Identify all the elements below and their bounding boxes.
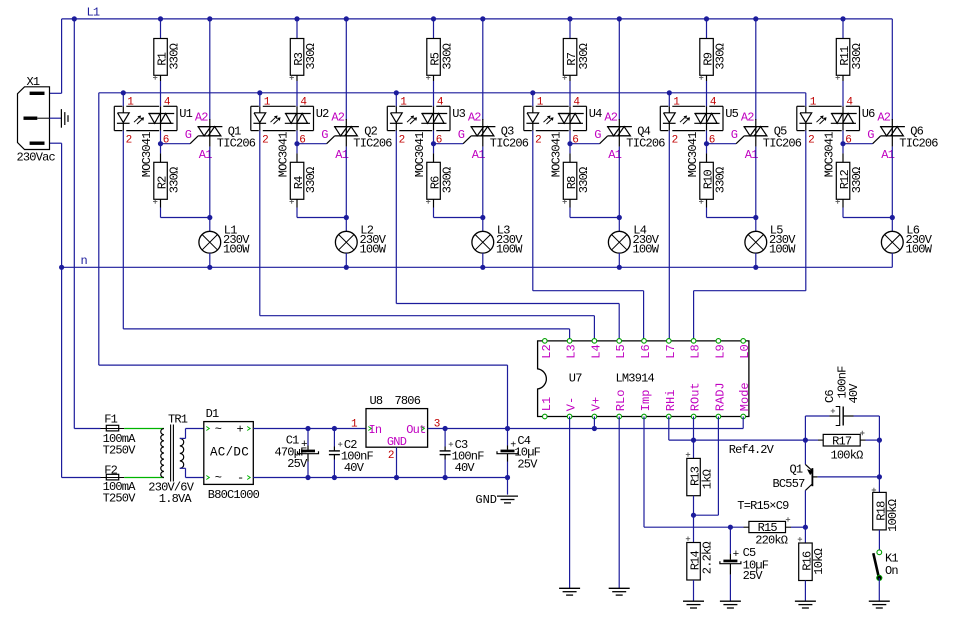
wire TR1 secondary to D1 <box>180 437 186 439</box>
wire X1 pin1 to L1 rail <box>61 19 63 93</box>
wire +6V rail feeding opto LEDs <box>99 92 806 94</box>
svg-text:6: 6 <box>163 135 169 147</box>
wire net n rail <box>62 266 893 268</box>
wire gate of Q3 <box>434 143 464 145</box>
resistor R1 330 ohm <box>154 39 168 76</box>
IC U7 LM3914 <box>538 341 749 417</box>
ground at RLo <box>609 587 630 589</box>
fuse F2 100mA T250V <box>101 477 125 479</box>
svg-text:L3: L3 <box>565 344 579 358</box>
svg-text:Imp: Imp <box>639 390 653 412</box>
svg-text:U3: U3 <box>452 107 465 121</box>
svg-text:6: 6 <box>299 135 305 147</box>
wire gate of Q5 <box>707 143 737 145</box>
svg-text:R15: R15 <box>758 521 778 535</box>
junction C1 plus <box>305 426 310 431</box>
junction L1 rail / Q4 A2 <box>617 16 622 21</box>
resistor R12 330 ohm <box>836 162 850 199</box>
svg-text:MOC3041: MOC3041 <box>549 132 563 177</box>
junction U4 pin6 / R8 / gate <box>567 141 572 146</box>
svg-text:330Ω: 330Ω <box>167 167 181 193</box>
wire RADJ jog <box>694 514 719 516</box>
wire U5 pin 6 to gate node <box>706 131 708 144</box>
svg-text:1: 1 <box>400 97 407 109</box>
junction R15 / Q1 collector / R16 <box>803 525 808 530</box>
triac Q6 TIC206 <box>891 119 893 147</box>
wire Q6 A1 to lamp L6 <box>891 147 893 232</box>
svg-text:RADJ: RADJ <box>713 382 727 411</box>
resistor R7 330 ohm <box>563 39 577 76</box>
power ground symbol <box>507 478 509 495</box>
wire L1 rail to F1 <box>73 19 75 429</box>
svg-text:X1: X1 <box>27 75 40 89</box>
resistor R4 330 ohm <box>290 162 304 199</box>
resistor R5 330 ohm <box>427 39 441 76</box>
wire Q1 A2 from L1 rail <box>209 19 211 120</box>
junction U1 pin6 / R2 / gate <box>158 141 163 146</box>
svg-text:A2: A2 <box>877 111 890 125</box>
wire lamp L4 to n rail <box>618 253 620 267</box>
svg-text:F1: F1 <box>104 413 117 427</box>
opto-triac U4 MOC3041 <box>524 105 532 107</box>
lamp L2 230V 100W <box>335 231 357 253</box>
junction Q1 A1 / R2 / lamp L1 <box>207 215 212 220</box>
svg-text:7806: 7806 <box>395 394 421 408</box>
svg-text:-: - <box>237 471 243 485</box>
wire R7 to U4 pin 4 <box>569 81 571 106</box>
junction GND rail / U8 <box>394 475 399 480</box>
svg-text:100W: 100W <box>223 243 250 257</box>
svg-text:100W: 100W <box>906 243 933 257</box>
wire R3 to U2 pin 4 <box>296 81 298 106</box>
opto-triac U6 MOC3041 <box>797 105 805 107</box>
svg-text:4: 4 <box>164 97 171 109</box>
svg-text:Mode: Mode <box>738 382 752 411</box>
svg-text:A2: A2 <box>331 111 344 125</box>
svg-text:4: 4 <box>846 97 853 109</box>
svg-text:U6: U6 <box>862 107 875 121</box>
resistor R9 330 ohm <box>700 39 714 76</box>
wire Q6 A2 from L1 rail <box>891 19 893 120</box>
junction R13 / R14 / RADJ <box>691 513 696 518</box>
connector X1 230Vac <box>18 87 50 150</box>
svg-text:1: 1 <box>810 97 817 109</box>
junction n rail / lamp L5 <box>753 265 758 270</box>
svg-text:L1: L1 <box>87 6 100 20</box>
wire U3 pin 2 down <box>395 131 397 304</box>
wire R17 node down to base row <box>878 440 880 477</box>
wire gate of Q4 <box>570 143 600 145</box>
wire Q2 A2 from L1 rail <box>345 19 347 120</box>
wire Q1 A1 to lamp L1 <box>209 147 211 232</box>
junction L1 rail / Q1 A2 <box>207 16 212 21</box>
wire X1 pin3 to F2 <box>50 142 62 144</box>
svg-text:U4: U4 <box>589 107 602 121</box>
lamp L4 230V 100W <box>608 231 630 253</box>
wire U8 output 6V rail <box>428 428 744 430</box>
ground at V- <box>559 587 580 589</box>
wire R10 to lamp node <box>706 208 708 218</box>
wire R3 top lead <box>296 19 298 39</box>
svg-text:TIC206: TIC206 <box>490 137 529 151</box>
wire R11 top lead <box>842 19 844 39</box>
svg-text:L9: L9 <box>713 344 727 358</box>
lamp L6 230V 100W <box>881 231 903 253</box>
capacitor C1 470uF 25V <box>307 429 309 446</box>
wire R15 right to collector node <box>786 526 792 528</box>
resistor R17 100k <box>805 439 818 441</box>
wire X1 earth pin <box>50 117 62 119</box>
svg-text:330Ω: 330Ω <box>577 43 591 69</box>
wire +6V to U5 pin 1 <box>668 93 670 107</box>
svg-text:330Ω: 330Ω <box>440 43 454 69</box>
voltage regulator U8 7806 <box>366 409 428 448</box>
svg-text:GND: GND <box>475 493 497 507</box>
wire U4 pin 6 to gate node <box>569 131 571 144</box>
svg-text:+: + <box>733 549 740 561</box>
svg-text:L6: L6 <box>639 344 653 358</box>
junction C1 minus <box>305 475 310 480</box>
wire U6 pin2 to LM3914 L8 <box>694 290 806 292</box>
junction C2 top <box>332 426 337 431</box>
svg-text:40V: 40V <box>344 461 365 475</box>
svg-text:F2: F2 <box>104 464 117 478</box>
wire lamp L3 to n rail <box>482 253 484 267</box>
wire gate of Q1 <box>161 143 191 145</box>
wire net L1 top rail <box>62 18 893 20</box>
wire lamp L5 to n rail <box>755 253 757 267</box>
junction n rail / lamp L1 <box>207 265 212 270</box>
wire Mode to 6V rail <box>742 417 744 429</box>
wire R13 bottom to RADJ node <box>693 496 695 516</box>
ground at R14 <box>683 600 704 602</box>
svg-text:MOC3041: MOC3041 <box>276 132 290 177</box>
junction L1 rail / Q3 A2 <box>480 16 485 21</box>
svg-text:A2: A2 <box>604 111 617 125</box>
wire +6V to U4 pin 1 <box>532 93 534 107</box>
svg-text:L4: L4 <box>589 344 603 358</box>
wire U4 pin 2 down <box>532 131 534 291</box>
svg-text:R17: R17 <box>832 435 852 449</box>
fuse F1 100mA T250V <box>101 428 125 430</box>
svg-text:TIC206: TIC206 <box>217 137 256 151</box>
wire Q5 A1 to lamp L5 <box>755 147 757 232</box>
junction L1 rail / R5 <box>431 16 436 21</box>
svg-text:10kΩ: 10kΩ <box>812 548 826 574</box>
junction +6V rail / U5 pin 1 <box>667 90 672 95</box>
opto-triac U5 MOC3041 <box>660 105 668 107</box>
wire K1 to ground <box>878 578 880 601</box>
opto-triac U3 MOC3041 <box>387 105 395 107</box>
svg-text:330Ω: 330Ω <box>577 167 591 193</box>
svg-text:n: n <box>81 254 88 268</box>
lamp L5 230V 100W <box>745 231 767 253</box>
svg-text:330Ω: 330Ω <box>850 43 864 69</box>
svg-text:A2: A2 <box>195 111 208 125</box>
transistor Q1 BC557 <box>804 440 806 464</box>
resistor R6 330 ohm <box>427 162 441 199</box>
svg-text:T250V: T250V <box>103 492 137 506</box>
svg-text:G: G <box>321 128 328 142</box>
wire lamp L6 to n rail <box>891 253 893 267</box>
svg-text:TIC206: TIC206 <box>626 137 665 151</box>
wire R10 top lead <box>706 144 708 154</box>
triac Q3 TIC206 <box>482 119 484 147</box>
wire U2 pin 2 down <box>259 131 261 316</box>
wire V+ stub <box>593 417 595 429</box>
wire R11 to U6 pin 4 <box>842 81 844 106</box>
wire Q3 A2 from L1 rail <box>482 19 484 120</box>
resistor R11 330 ohm <box>836 39 850 76</box>
wire U6 pin 2 down <box>805 131 807 291</box>
wire U2 pin 6 to gate node <box>296 131 298 144</box>
svg-text:1.8VA: 1.8VA <box>159 492 193 506</box>
svg-text:330Ω: 330Ω <box>850 167 864 193</box>
svg-text:1: 1 <box>264 97 271 109</box>
svg-text:RLo: RLo <box>614 390 628 412</box>
svg-text:4: 4 <box>437 97 444 109</box>
resistor R16 10k <box>799 543 813 581</box>
junction L1 rail / F1 feed <box>72 16 77 21</box>
svg-text:Ref4.2V: Ref4.2V <box>729 443 775 457</box>
junction C4 bottom / GND stub <box>505 475 510 480</box>
wire U5 pin 2 down <box>668 131 670 341</box>
wire RHi to Ref4.2V rail <box>668 417 670 441</box>
wire R4 top lead <box>296 144 298 154</box>
capacitor C6 100nF 40V <box>804 416 806 440</box>
ground at C5 <box>720 600 741 602</box>
svg-text:L5: L5 <box>614 344 628 358</box>
junction R17 right / C6 / R18 branch <box>877 438 882 443</box>
svg-text:A2: A2 <box>468 111 481 125</box>
svg-text:BC557: BC557 <box>772 477 805 491</box>
wire R1 to U1 pin 4 <box>160 81 162 106</box>
wire R9 to U5 pin 4 <box>706 81 708 106</box>
svg-text:~: ~ <box>215 471 222 485</box>
wire Imp to R15 row <box>643 417 645 528</box>
wire U1 pin2 to LM3914 L3 <box>123 328 569 330</box>
svg-text:2: 2 <box>126 135 132 147</box>
opto-triac U2 MOC3041 <box>251 105 259 107</box>
svg-text:6: 6 <box>709 135 715 147</box>
svg-text:2.2kΩ: 2.2kΩ <box>700 542 714 575</box>
resistor R14 2.2k <box>687 543 701 581</box>
wire Q5 A2 from L1 rail <box>755 19 757 120</box>
wire gate of Q2 <box>297 143 327 145</box>
capacitor C2 100nF 40V <box>333 429 335 447</box>
ground at R16 <box>795 600 816 602</box>
svg-text:25V: 25V <box>743 569 764 583</box>
wire U1 pin 6 to gate node <box>160 131 162 144</box>
junction C5 / Imp row <box>728 525 733 530</box>
svg-text:V-: V- <box>565 397 579 411</box>
junction Ref rail / Q1 emitter / C6 / R17 <box>803 438 808 443</box>
triac Q1 TIC206 <box>209 119 211 147</box>
svg-text:6: 6 <box>572 135 578 147</box>
resistor R18 100k <box>873 492 887 530</box>
wire +6V to U1 pin 1 <box>122 93 124 107</box>
svg-text:U7: U7 <box>569 372 582 386</box>
wire Q1 base to R18 node <box>818 476 880 478</box>
svg-text:25V: 25V <box>287 457 308 471</box>
svg-text:1: 1 <box>673 97 680 109</box>
svg-text:6: 6 <box>845 135 851 147</box>
wire R5 top lead <box>433 19 435 39</box>
junction ROut / Ref rail <box>691 438 696 443</box>
svg-text:L8: L8 <box>689 344 703 358</box>
switch K1 On <box>877 550 882 555</box>
svg-text:2: 2 <box>388 450 394 462</box>
triac Q5 TIC206 <box>755 119 757 147</box>
wire R5 to U3 pin 4 <box>433 81 435 106</box>
junction +6V rail / U2 pin 1 <box>257 90 262 95</box>
resistor R8 330 ohm <box>563 162 577 199</box>
svg-text:ROut: ROut <box>689 382 703 411</box>
wire lamp L2 to n rail <box>345 253 347 267</box>
svg-text:220kΩ: 220kΩ <box>755 534 788 548</box>
svg-text:TIC206: TIC206 <box>763 137 802 151</box>
svg-text:100W: 100W <box>633 243 660 257</box>
transformer TR1 230V/6V 1.8VA <box>161 429 164 478</box>
svg-text:RHi: RHi <box>664 390 678 412</box>
wire U6 pin 6 to gate node <box>842 131 844 144</box>
svg-text:6: 6 <box>436 135 442 147</box>
junction U6 pin6 / R12 / gate <box>840 141 845 146</box>
svg-text:1: 1 <box>537 97 544 109</box>
wire D1 + output to regulator <box>253 428 366 430</box>
wire R18 top <box>878 477 880 493</box>
junction L1 rail / R11 <box>840 16 845 21</box>
wire U1 pin 2 down <box>122 131 124 329</box>
wire F1 to TR1 (green) <box>124 428 164 430</box>
wire Q3 A1 to lamp L3 <box>482 147 484 232</box>
svg-text:G: G <box>731 128 738 142</box>
wire U2 pin2 to LM3914 L4 <box>260 315 595 317</box>
svg-text:L0: L0 <box>738 344 752 358</box>
U7 pin connection rings <box>543 339 548 344</box>
wire R13 node down to R14 <box>693 515 695 542</box>
wire F2 to TR1 (green) <box>124 477 164 479</box>
svg-text:T250V: T250V <box>103 444 137 458</box>
junction L1 rail / R1 <box>158 16 163 21</box>
wire V- to ground <box>569 417 571 589</box>
svg-text:V+: V+ <box>589 397 603 411</box>
svg-text:100W: 100W <box>769 243 796 257</box>
svg-text:U1: U1 <box>179 107 192 121</box>
wire R12 top lead <box>842 144 844 154</box>
wire Q2 A1 to lamp L2 <box>345 147 347 232</box>
wire Q4 A1 to lamp L4 <box>618 147 620 232</box>
svg-text:330Ω: 330Ω <box>713 43 727 69</box>
resistor R10 330 ohm <box>700 162 714 199</box>
bridge rectifier D1 B80C1000 <box>204 422 254 485</box>
junction Q4 A1 / R8 / lamp L4 <box>617 215 622 220</box>
junction +6V rail / U3 pin 1 <box>394 90 399 95</box>
lamp L3 230V 100W <box>472 231 494 253</box>
svg-text:100kΩ: 100kΩ <box>886 499 900 532</box>
svg-text:G: G <box>185 128 192 142</box>
svg-text:T=R15×C9: T=R15×C9 <box>737 499 789 513</box>
svg-text:L2: L2 <box>540 344 554 358</box>
wire R1 top lead <box>160 19 162 39</box>
capacitor C4 10uF 25V <box>507 429 509 446</box>
svg-text:40V: 40V <box>455 461 476 475</box>
junction U2 pin6 / R4 / gate <box>294 141 299 146</box>
junction L1 rail / Q2 A2 <box>344 16 349 21</box>
svg-text:2: 2 <box>672 135 678 147</box>
wire RLo to ground <box>618 417 620 589</box>
junction Q5 A1 / R10 / lamp L5 <box>753 215 758 220</box>
wire R9 top lead <box>706 19 708 39</box>
junction V+ pin / 6V rail <box>592 426 597 431</box>
wire U4 pin2 to LM3914 L6 <box>533 290 644 292</box>
wire R8 to lamp node <box>569 208 571 218</box>
svg-text:Q1: Q1 <box>789 463 802 477</box>
junction Q2 A1 / R4 / lamp L2 <box>344 215 349 220</box>
wire R7 top lead <box>569 19 571 39</box>
svg-text:1: 1 <box>127 97 134 109</box>
opto-triac U1 MOC3041 <box>114 105 122 107</box>
junction C2 bottom <box>332 475 337 480</box>
wire R6 to lamp node <box>433 208 435 218</box>
wire Q4 A2 from L1 rail <box>618 19 620 120</box>
svg-text:4: 4 <box>573 97 580 109</box>
svg-text:B80C1000: B80C1000 <box>208 488 260 502</box>
svg-text:2: 2 <box>535 135 541 147</box>
junction C3 bottom <box>443 475 448 480</box>
wire R8 top lead <box>569 144 571 154</box>
svg-text:2: 2 <box>808 135 814 147</box>
svg-text:100W: 100W <box>360 243 387 257</box>
svg-text:U8: U8 <box>370 394 383 408</box>
wire U3 pin 6 to gate node <box>433 131 435 144</box>
junction C4 top / +6V riser <box>505 426 510 431</box>
svg-text:4: 4 <box>300 97 307 109</box>
resistor R3 330 ohm <box>290 39 304 76</box>
ground at K1 <box>869 600 890 602</box>
svg-text:L1: L1 <box>540 397 554 411</box>
svg-text:MOC3041: MOC3041 <box>413 132 427 177</box>
junction n rail / lamp L3 <box>480 265 485 270</box>
svg-text:25V: 25V <box>517 457 538 471</box>
svg-text:1: 1 <box>351 418 358 430</box>
svg-text:On: On <box>885 564 898 578</box>
wire +6V to U3 pin 1 <box>395 93 397 107</box>
wire R6 top lead <box>433 144 435 154</box>
wire R16 to ground <box>804 581 806 602</box>
svg-text:D1: D1 <box>206 407 219 421</box>
junction +6V rail / U1 pin 1 <box>121 90 126 95</box>
svg-text:AC/DC: AC/DC <box>210 446 249 460</box>
svg-text:U2: U2 <box>316 107 329 121</box>
svg-text:100kΩ: 100kΩ <box>830 449 863 463</box>
svg-text:U5: U5 <box>725 107 738 121</box>
svg-text:330Ω: 330Ω <box>167 43 181 69</box>
junction C3 top <box>443 426 448 431</box>
svg-text:230Vac: 230Vac <box>17 150 56 164</box>
svg-text:330Ω: 330Ω <box>713 167 727 193</box>
capacitor C5 10uF 25V <box>729 527 731 554</box>
junction L1 rail / Q5 A2 <box>753 16 758 21</box>
svg-text:TR1: TR1 <box>168 413 188 427</box>
junction +6V rail / U4 pin 1 <box>530 90 535 95</box>
svg-text:GND: GND <box>387 435 407 449</box>
wire R4 to lamp node <box>296 208 298 218</box>
junction U5 pin6 / R10 / gate <box>704 141 709 146</box>
svg-text:4: 4 <box>710 97 717 109</box>
resistor R2 330 ohm <box>154 162 168 199</box>
triac Q2 TIC206 <box>345 119 347 147</box>
